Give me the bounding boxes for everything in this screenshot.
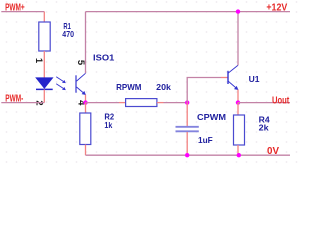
optocoupler ISO1 LED [36, 78, 53, 90]
wire CPWM to 0V rail [186, 132, 188, 155]
svg-text:1uF: 1uF [198, 135, 213, 145]
wire collector to +12V rail [237, 12, 239, 66]
wire R1 to LED anode [43, 51, 45, 78]
wire R2 to 0V rail [85, 145, 87, 156]
svg-text:RPWM: RPWM [116, 82, 141, 92]
junction node B [185, 100, 189, 104]
junction CPWM at 0V rail [185, 153, 189, 157]
svg-text:+12V: +12V [266, 3, 287, 14]
wire RPWM to node B [164, 102, 188, 104]
resistor R2 [80, 113, 91, 145]
wire emitter to node [85, 95, 87, 103]
wire Uout [238, 102, 290, 104]
wire PWM+ down to R1 [43, 12, 45, 22]
wire Uout node to R4 [237, 103, 239, 115]
wire node B up to base [187, 78, 221, 103]
svg-text:470: 470 [62, 29, 74, 39]
svg-text:0V: 0V [267, 146, 279, 157]
wire node to R2 [85, 103, 87, 113]
optocoupler light arrows [56, 77, 66, 90]
wire stub into RPWM left [119, 102, 126, 104]
svg-text:2k: 2k [259, 122, 269, 132]
wire LED cathode down [43, 89, 45, 102]
bottom rail 0V [86, 154, 291, 156]
wire PWM- horizontal [1, 102, 44, 104]
wire top rail to pin 5 [85, 12, 87, 74]
svg-text:1k: 1k [104, 120, 112, 130]
wire emitter down to Uout node [237, 90, 239, 103]
wire node B down to CPWM [186, 103, 188, 126]
resistor R1 [39, 22, 50, 51]
svg-text:1: 1 [33, 58, 44, 64]
svg-text:ISO1: ISO1 [93, 53, 115, 63]
svg-text:CPWM: CPWM [197, 112, 226, 122]
wire R4 to 0V rail [237, 145, 239, 155]
svg-text:Uout: Uout [272, 96, 290, 107]
svg-text:20k: 20k [156, 82, 171, 92]
svg-text:5: 5 [75, 60, 86, 66]
optocoupler ISO1 phototransistor [76, 73, 86, 95]
resistor R4 [234, 115, 245, 145]
svg-text:U1: U1 [249, 74, 260, 84]
transistor U1 [228, 65, 238, 90]
capacitor CPWM [176, 127, 199, 132]
junction R4 at 0V rail [237, 153, 241, 157]
junction Uout node [236, 100, 240, 104]
resistor RPWM [126, 99, 157, 107]
top rail +12V [86, 11, 291, 13]
wire stub into base [221, 77, 228, 79]
wire PWM+ horizontal [1, 11, 44, 13]
wire stub out of RPWM right [157, 102, 164, 104]
junction collector at top rail [236, 9, 240, 13]
junction at emitter node [83, 100, 87, 104]
wire node to RPWM [86, 102, 120, 104]
